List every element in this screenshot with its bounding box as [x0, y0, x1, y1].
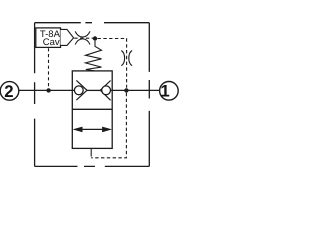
- inner line between check seats: [87, 89, 101, 91]
- node: spring / pilot junction dot: [93, 36, 97, 40]
- check seat right: [100, 81, 110, 101]
- pilot line (dashed) from port 1 line down and left to spool bottom: [91, 93, 126, 158]
- svg-text:Cav: Cav: [43, 37, 60, 48]
- spring: [86, 41, 102, 71]
- valve spool envelope (two-section box): [72, 71, 112, 148]
- leader line (dashed) from callout to port 2 line: [48, 48, 50, 87]
- bidirectional flow arrow in lower section: [73, 127, 112, 133]
- check ball right (circle): [102, 86, 111, 95]
- pilot line (dashed) right then down to port 1 line: [98, 39, 127, 88]
- svg-text:1: 1: [160, 82, 169, 101]
- cavity callout box T-8A: [36, 28, 74, 48]
- port 2 line: [19, 89, 75, 91]
- port 1 symbol (circle): [160, 82, 179, 101]
- junction dot on port 1 line: [124, 88, 128, 92]
- orifice (pilot orifice, vertical): [121, 51, 132, 66]
- box divider: [72, 108, 112, 110]
- pilot line through orifice to spring node (dashed): [74, 37, 93, 39]
- check ball left (circle): [74, 86, 83, 95]
- svg-text:2: 2: [4, 82, 13, 101]
- junction dot on port 2 line: [46, 88, 50, 92]
- port 1 line: [111, 89, 160, 91]
- solid stem from spool bottom to pilot: [90, 148, 92, 156]
- orifice (control orifice, horizontal): [75, 31, 90, 44]
- port 2 symbol (circle): [0, 82, 19, 101]
- valve assembly boundary (solid rectangle with breaks): [35, 23, 150, 167]
- check seat left: [76, 80, 87, 100]
